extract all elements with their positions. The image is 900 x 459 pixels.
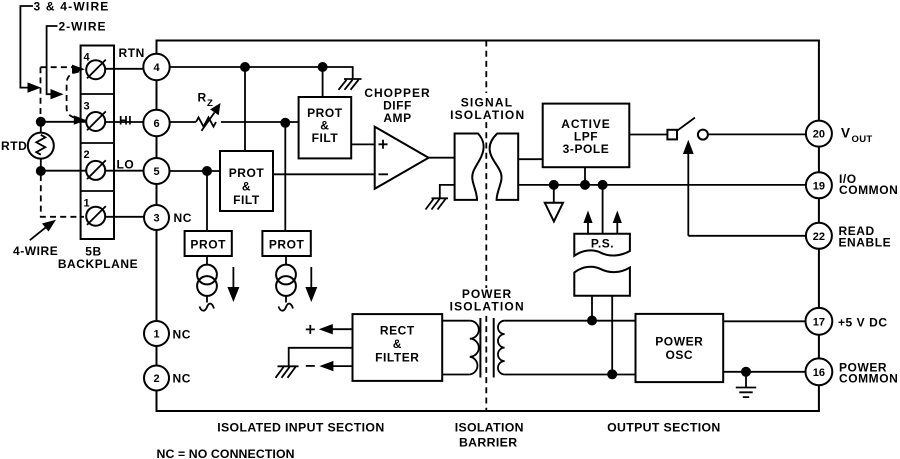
box P.S. lower torn [574,267,630,296]
label POWER ISOLATION [450,287,525,314]
svg-text:P.S.: P.S. [591,237,614,251]
box RECT & FILTER [353,314,443,381]
node junction RTD top [36,117,46,127]
svg-text:3-POLE: 3-POLE [563,142,610,156]
svg-text:16: 16 [813,367,825,379]
wire LPF bottom to rail [584,167,586,185]
svg-text:FILTER: FILTER [375,351,419,365]
svg-text:ENABLE: ENABLE [839,236,892,250]
svg-text:1: 1 [153,329,159,341]
svg-text:PROT: PROT [269,238,305,252]
isolation barrier dashed line [485,41,487,412]
label POWER COMMON [839,361,898,386]
svg-text:3: 3 [84,101,90,113]
svg-text:COMMON: COMMON [839,372,898,386]
svg-text:&: & [242,180,251,194]
label ISOLATION BARRIER [455,421,524,450]
box PROT 1 [185,231,232,256]
svg-text:RTD: RTD [1,139,27,153]
svg-text:NC: NC [173,328,191,342]
earth ground [736,372,756,397]
pin 1 [144,321,169,346]
signal isolation coupler right half [490,134,519,200]
label 2-WIRE with bracket arrow [47,20,107,100]
svg-text:5: 5 [153,166,159,178]
junction dot xfmr top [587,316,597,326]
box upper PROT & FILT [299,97,352,158]
svg-text:&: & [393,337,402,351]
junction dot rail3 [598,180,608,190]
svg-text:3 & 4-WIRE: 3 & 4-WIRE [34,0,110,14]
pin 20 [806,121,832,147]
wire secondary bottom to power osc [505,374,636,376]
wire read enable control with arrow [683,140,694,236]
svg-text:ISOLATION: ISOLATION [450,300,525,314]
label SIGNAL ISOLATION [448,93,528,122]
box P.S. upper torn [574,234,630,256]
op-amp chopper diff amp [375,127,429,189]
wire power osc to pin 16 [723,371,806,373]
pin 19 [806,172,832,198]
junction dot rail1 [549,180,559,190]
analog common triangle [545,185,563,222]
svg-text:FILT: FILT [233,193,260,207]
wire rail3 to PS box [602,185,604,234]
wire screw1 to node 3 [105,216,145,218]
svg-text:2: 2 [84,149,90,161]
current source I2 [276,256,296,311]
wire dashed 4-wire run to screw 1 [41,175,84,217]
svg-text:R: R [198,91,207,105]
transformer T1 primary winding [442,321,479,375]
pin 17 [806,308,833,335]
wire dot D down to prot box 1 [206,171,208,231]
wire RTD bottom to screw 2 [41,170,86,172]
screw terminal 2 [86,160,106,180]
pin 3 [144,205,169,230]
junction dot C [280,118,290,128]
chassis ground low [276,366,299,378]
svg-text:FILT: FILT [312,131,339,145]
screw terminal 3 [86,111,106,131]
box lower PROT & FILT [220,151,273,211]
box POWER OSC [636,314,724,382]
arrow PS right up [613,211,622,234]
svg-text:17: 17 [813,316,825,328]
wire vertical dot B to upper prot filt [322,67,324,97]
svg-text:6: 6 [153,118,159,130]
label I/O COMMON [839,172,898,197]
svg-text:19: 19 [813,180,825,192]
svg-text:1: 1 [84,198,90,210]
switch read-enable [667,118,708,140]
svg-text:RTN: RTN [119,46,145,60]
label VOUT [841,126,872,146]
junction dot D [202,166,212,176]
svg-text:2-WIRE: 2-WIRE [59,20,107,34]
svg-text:4-WIRE: 4-WIRE [13,244,58,258]
chassis ground mid [426,198,449,209]
svg-text:BARRIER: BARRIER [459,436,517,450]
wire dashed 3/4-wire sense vertical [40,67,42,118]
pin 22 [806,223,832,249]
svg-text:V: V [841,126,850,141]
svg-text:OUTPUT SECTION: OUTPUT SECTION [607,421,721,435]
pin 5 [144,158,170,184]
svg-text:COMMON: COMMON [839,183,898,197]
svg-text:Z: Z [207,98,213,109]
resistor RZ [170,91,299,131]
screw terminal 4 [86,60,106,80]
wire coupler left to chassis ground [440,185,455,198]
wire RTD top to screw 3 [41,121,86,123]
svg-text:ISOLATED INPUT SECTION: ISOLATED INPUT SECTION [217,421,384,435]
svg-text:NC: NC [173,372,191,386]
svg-text:AMP: AMP [383,111,411,125]
wire to chassis ground low [289,348,353,367]
svg-text:OSC: OSC [665,348,693,362]
svg-text:RECT: RECT [380,324,415,338]
svg-text:22: 22 [813,231,825,243]
screw terminal 1 [86,206,106,226]
svg-text:HI: HI [119,114,132,128]
svg-text:3: 3 [153,213,159,225]
signal isolation coupler left half [455,134,484,200]
wire upper prot filt to amp plus [351,143,375,145]
svg-text:ISOLATION: ISOLATION [450,108,525,122]
svg-text:LO: LO [117,158,135,172]
wire vertical dot A to lower prot filt [244,67,246,151]
wire common rail to pin 19 [518,184,806,186]
output plus with arrow [306,324,353,334]
svg-text:NC: NC [174,211,192,225]
wire dot C down to prot box 2 [284,123,286,231]
arrow current I1 down [227,267,239,302]
terminal block 5B backplane [81,46,114,240]
svg-text:2: 2 [153,373,159,385]
wire screw4 to node 4 [105,68,144,70]
junction dot pwr gnd [741,367,751,377]
arrowhead at screw 4 [72,65,85,74]
wire PS to transformer top [591,296,593,321]
transformer T1 core [480,318,493,378]
svg-text:4: 4 [153,62,160,74]
wire power osc to pin 17 [723,320,806,322]
wire PS to transformer bottom [611,296,613,375]
pin 6 [143,110,169,136]
svg-text:POWER: POWER [655,335,703,349]
wire pin5 to lower prot filt [170,170,221,172]
svg-text:20: 20 [813,129,825,141]
wire secondary top to power osc [505,320,636,322]
module border [157,41,819,412]
svg-text:NC = NO CONNECTION: NC = NO CONNECTION [157,447,295,459]
junction dot xfmr bottom [607,369,617,379]
wire coupler to LPF [518,158,543,160]
svg-text:+5 V DC: +5 V DC [838,316,888,330]
wire pin 22 [688,235,806,237]
wire screw2 to node 5 [105,170,144,172]
RTD sensor [1,122,54,171]
chassis ground top [339,79,362,90]
arrow current I2 down [305,267,317,302]
junction dot rail2 [580,180,590,190]
arrow PS left up [583,211,592,234]
svg-text:OUT: OUT [852,134,873,145]
wire LPF out to switch [629,134,667,136]
svg-text:BACKPLANE: BACKPLANE [58,257,138,271]
junction dot B [318,62,328,72]
label READ ENABLE [839,224,892,250]
wire amp out to signal transformer [429,157,455,159]
junction dot A [240,62,250,72]
wire pin4 rail to ground stem [170,67,353,79]
arrowhead at screw 3 [74,115,87,124]
output minus with arrow [306,361,353,371]
svg-text:ISOLATION: ISOLATION [455,421,524,435]
svg-text:PROT: PROT [229,166,265,180]
current source I1 [197,256,217,311]
wire dashed top run to screw 4 [41,67,78,68]
pin 2 [144,366,169,391]
wire lower prot filt to amp minus [273,173,375,175]
svg-text:PROT: PROT [190,238,226,252]
wire screw3 to node 6 [105,121,144,123]
wire dashed 2-wire jumper C [67,72,79,119]
pin 16 [806,358,833,385]
wire switch to pin 20 [708,133,806,135]
label 4-WIRE with arrow [13,220,58,258]
transformer T1 secondary winding [498,321,505,375]
label 5B BACKPLANE [58,245,138,272]
pin 4 [143,54,169,80]
label CHOPPER DIFF AMP [364,86,430,125]
label 3 & 4-WIRE with bracket arrow [20,0,109,93]
node junction RTD bottom [36,166,46,176]
box PROT 2 [262,231,310,256]
box ACTIVE LPF 3-POLE [543,104,630,168]
